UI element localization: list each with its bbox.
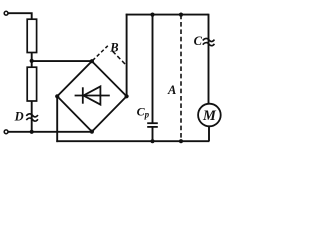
resistor R1 <box>27 19 36 52</box>
bridge rectifier diamond <box>57 61 126 131</box>
node A top <box>179 13 183 17</box>
node junction on lower-left wire <box>30 130 34 134</box>
wire left vertex down to bottom rail <box>56 96 58 142</box>
svg-text:M: M <box>202 108 217 124</box>
svg-text:C: C <box>194 34 203 48</box>
break squiggle on phase D lead <box>26 114 38 117</box>
wire junction to bridge top vertex <box>32 60 92 62</box>
capacitor Cp branch upper wire <box>152 15 154 124</box>
diode cathode bar <box>82 87 84 103</box>
resistor R2 <box>27 67 36 101</box>
node bottom vertex <box>90 130 94 134</box>
diode triangle <box>83 86 100 104</box>
node left vertex <box>55 94 59 98</box>
wire R2 down to lower-left wire <box>31 101 33 132</box>
motor M circle <box>198 104 221 127</box>
svg-text:D: D <box>14 110 24 124</box>
break squiggle on phase C lead <box>203 38 215 41</box>
wire bottom-left terminal to bridge bottom vertex <box>9 131 92 133</box>
capacitor Cp lower wire <box>152 127 154 141</box>
node Cp bottom <box>150 139 154 143</box>
wire R1 to R2 <box>31 53 33 68</box>
node top vertex <box>90 59 94 63</box>
svg-text:B: B <box>109 41 118 55</box>
top rail <box>126 14 209 16</box>
wire motor to bottom rail <box>208 126 210 141</box>
dashed line A <box>180 15 182 142</box>
node Cp top <box>150 13 154 17</box>
wire from top-left terminal to resistor R1 <box>9 13 32 19</box>
dashed jumper B from top vertex to right-vertex riser <box>93 46 108 61</box>
node right vertex <box>125 94 129 98</box>
wire right vertex up to top rail <box>126 14 128 97</box>
bottom rail <box>56 140 209 142</box>
terminal bottom-left <box>4 130 8 134</box>
node junction between resistors <box>30 59 34 63</box>
right branch wire top to motor <box>208 14 210 104</box>
diode inside bridge: lead <box>75 95 110 97</box>
svg-text:A: A <box>167 83 176 97</box>
node A bottom <box>179 139 183 143</box>
capacitor Cp plates <box>147 122 158 124</box>
terminal top-left <box>4 11 8 15</box>
